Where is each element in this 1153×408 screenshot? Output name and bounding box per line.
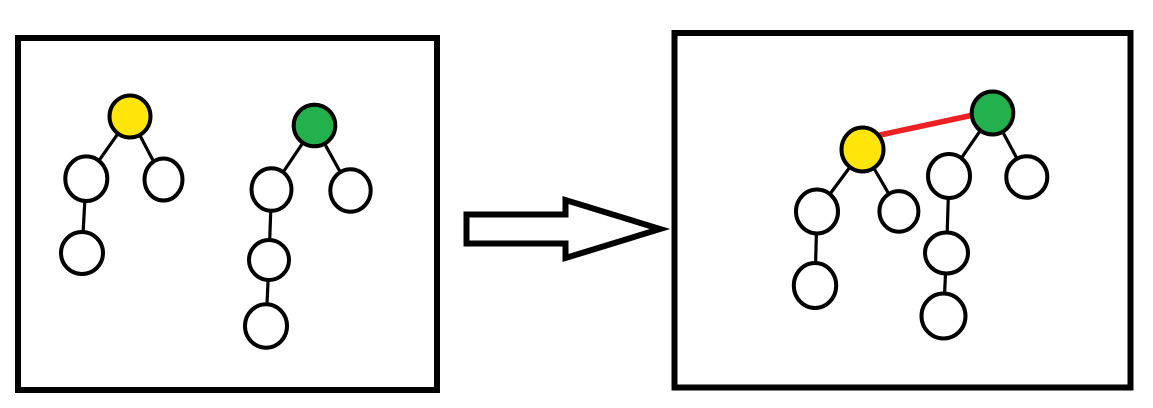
- right panel box: [675, 33, 1131, 388]
- node: merged yellow left child: [796, 190, 838, 234]
- wire: tree1 root to left child: [86, 117, 130, 180]
- wire: merged yellow left child to grandchild: [815, 212, 817, 286]
- node: tree1 yellow root: [110, 96, 151, 138]
- wire: merged red link between yellow and green roots: [866, 111, 992, 138]
- wire: tree2 root to right child: [315, 126, 351, 191]
- node: merged green right child: [1006, 156, 1047, 198]
- node: merged green left child: [928, 154, 970, 198]
- wire: tree2 left child to grandchild: [269, 190, 272, 261]
- node: merged yellow right child: [879, 191, 918, 232]
- wire: merged yellow root to left child: [817, 150, 863, 212]
- node: merged green root: [972, 92, 1014, 135]
- node: tree1 grandchild: [61, 232, 103, 274]
- node: merged green grandchild: [925, 233, 968, 274]
- wire: merged green left child to grandchild: [947, 176, 950, 253]
- wire: tree2 grandchild to great-grandchild: [266, 260, 269, 326]
- arrow (left box to right box): [467, 200, 661, 258]
- left panel box: [18, 38, 437, 390]
- node: tree1 right child: [145, 159, 183, 201]
- node: merged yellow grandchild: [794, 263, 836, 308]
- node: tree1 left child: [65, 156, 107, 201]
- node: tree2 right child: [330, 169, 370, 211]
- node: merged green great-grandchild: [922, 294, 966, 339]
- node: tree2 great-grandchild: [245, 304, 287, 347]
- node: merged yellow root: [842, 128, 884, 172]
- wire: tree2 root to left child: [272, 126, 315, 190]
- wire: merged green grandchild to great-grandchild: [944, 253, 947, 316]
- wire: merged green root to left child: [949, 113, 993, 176]
- wire: tree1 root to right child: [130, 117, 163, 180]
- node: tree2 green root: [294, 105, 336, 147]
- node: tree2 left child: [252, 168, 292, 211]
- wire: tree1 left child to grandchild: [82, 179, 86, 253]
- wire: merged green root to right child: [993, 113, 1028, 177]
- node: tree2 grandchild: [249, 240, 289, 280]
- wire: merged yellow root to right child: [863, 150, 899, 212]
